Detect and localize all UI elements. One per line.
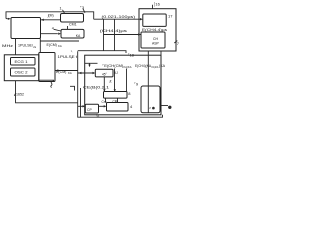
svg-text:8: 8 [128, 91, 131, 96]
svg-text:ʃ(M): ʃ(M) [47, 13, 54, 17]
svg-text:≠: ≠ [149, 106, 151, 110]
svg-text:ta: ta [97, 113, 100, 117]
svg-text:ASP: ASP [152, 41, 160, 45]
svg-text:4: 4 [130, 104, 133, 109]
svg-text:)KA: )KA [159, 64, 166, 68]
svg-text:tIJ: tIJ [114, 71, 118, 75]
svg-text:(0.021-100µs): (0.021-100µs) [102, 15, 137, 19]
svg-text:MHz: MHz [2, 43, 13, 48]
svg-text:E(CH4)(KA: E(CH4)(KA [135, 64, 151, 68]
svg-text:ECG 1: ECG 1 [15, 60, 28, 64]
svg-text:CE(B(0.2.1: CE(B(0.2.1 [83, 86, 109, 90]
svg-text:CP: CP [87, 108, 92, 112]
svg-text:KA)KA: KA)KA [152, 65, 159, 69]
svg-text:1PULSE t: 1PULSE t [58, 55, 78, 59]
svg-text:E(CH4.4)µs: E(CH4.4)µs [142, 28, 167, 32]
svg-text:KA: KA [68, 71, 72, 75]
svg-text:t,: t, [71, 49, 73, 53]
svg-text:(CH4.4)µs: (CH4.4)µs [100, 29, 127, 33]
svg-text:1PULSE/: 1PULSE/ [18, 44, 33, 48]
svg-text:1652: 1652 [16, 92, 24, 96]
svg-text:45°: 45° [102, 73, 108, 77]
svg-text:⌠16: ⌠16 [153, 1, 161, 7]
svg-text:KA: KA [76, 34, 81, 38]
svg-text:KA: KA [58, 44, 62, 48]
svg-text:CM1: CM1 [69, 23, 77, 27]
svg-text:E(CM): E(CM) [47, 43, 57, 47]
svg-text:Y: Y [71, 56, 73, 60]
svg-text:⌜18: ⌜18 [128, 52, 134, 57]
svg-text:17: 17 [168, 14, 173, 19]
svg-text:E(CM): E(CM) [56, 70, 66, 74]
svg-text:⌜E(CH(CM): ⌜E(CH(CM) [102, 63, 123, 68]
svg-text:7: 7 [177, 41, 180, 46]
svg-text:↓t: ↓t [109, 80, 113, 84]
svg-text:CM: CM [113, 99, 118, 103]
svg-text:4: 4 [52, 26, 54, 30]
svg-text:1: 1 [60, 6, 63, 11]
svg-text:KA)KA: KA)KA [124, 65, 132, 69]
svg-text:OSC 2: OSC 2 [15, 71, 28, 75]
svg-text:Cm: Cm [102, 100, 107, 104]
svg-text:2s: 2s [33, 45, 36, 49]
svg-text:⌜3: ⌜3 [80, 5, 85, 10]
svg-text:⌜9: ⌜9 [134, 82, 139, 87]
